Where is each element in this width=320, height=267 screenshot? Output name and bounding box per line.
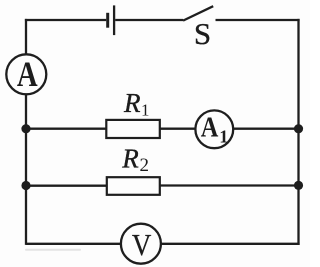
resistor R1 [106,120,160,138]
voltmeter V [121,224,161,264]
wire switch to top-right corner [216,19,300,21]
node junction left upper [21,124,30,133]
ammeter A [6,54,46,95]
wire R1 resistor to ammeter A1 [160,128,196,130]
ammeter A1 [195,110,233,148]
wire bottom-left segment (left rail to voltmeter) [26,243,122,245]
svg-text:R: R [121,144,139,174]
wire A1 to right rail [233,128,299,130]
label R2 [121,144,149,176]
switch S (open blade) [183,6,213,20]
svg-text:2: 2 [140,155,150,176]
wire left rail bottom (ammeter A to bottom corner) [25,94,27,245]
svg-text:A: A [201,110,219,142]
wire left rail top (corner to ammeter A) [25,19,27,55]
svg-text:S: S [194,16,211,51]
wire battery to switch [115,19,183,21]
battery [108,5,114,35]
svg-text:1: 1 [219,127,228,147]
wire voltmeter to bottom-right corner [160,243,299,245]
node junction left lower [21,181,30,190]
svg-text:1: 1 [141,100,150,119]
label R1 [123,88,150,119]
wire R2 resistor to right rail [160,184,299,186]
label S [194,16,211,51]
wire R1 branch left [26,128,107,130]
svg-text:V: V [132,229,151,263]
wire R2 branch left [26,185,108,187]
svg-text:A: A [17,55,38,95]
svg-text:R: R [123,88,141,118]
resistor R2 [107,177,160,195]
node junction right lower [294,181,303,190]
node junction right upper [294,124,303,133]
wire top-left segment (left rail to battery) [25,19,106,21]
wire right rail [297,19,299,245]
